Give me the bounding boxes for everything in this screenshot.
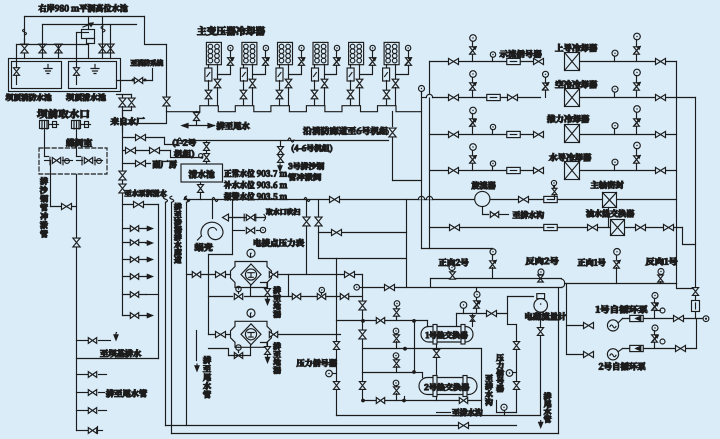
cyclone separator: [475, 191, 490, 206]
filter 1: [250, 254, 252, 258]
valve: clear pool internal: [76, 33, 78, 69]
valve: cyclone outlet: [519, 196, 529, 202]
cap: blowdown end: [264, 215, 266, 221]
gauge: x421 top: [419, 86, 425, 92]
basin box: [181, 164, 223, 182]
flowmeter: [537, 294, 545, 299]
pipe: seepage line A: [165, 203, 167, 426]
pipe: prv riser: [88, 17, 90, 30]
pipe: riser 2: [42, 25, 44, 45]
valve: filter2 left: [216, 331, 226, 337]
pipe: seepage line B: [171, 203, 173, 434]
junction: y400 x404: [402, 399, 406, 403]
valve: x306: [303, 217, 310, 226]
label: right-bank 980m headpond: [39, 4, 128, 12]
pump 1: [607, 320, 618, 331]
arrow: filter1 drain: [267, 298, 269, 303]
valve: bottom drain: [459, 422, 469, 428]
valve: x363 a: [359, 301, 366, 310]
pipe: y415.8 line: [337, 415, 541, 417]
pipe: pump2 discharge: [619, 349, 623, 352]
valve: city water tie 1: [122, 95, 124, 99]
row3 cooler 推力冷却器: [490, 124, 495, 129]
valve: filter1 left: [216, 271, 226, 277]
pipe: city water main: [122, 111, 124, 221]
pipe: riser 5 to tank2: [110, 25, 112, 45]
valve: filter1 left outer: [192, 272, 200, 278]
label: pressure signal 2 (vertical): [496, 354, 503, 361]
pipe: y400.5 line: [363, 400, 482, 402]
valve: flush: [62, 203, 72, 209]
pipe: cooler drain manifold: [167, 106, 422, 112]
pipe: basin drain vertical: [158, 205, 160, 359]
pipe: x336 column top: [336, 259, 338, 416]
pipe: aux plant branch: [123, 163, 151, 165]
valve: filter2 right: [269, 332, 277, 338]
valve: y150 b: [150, 147, 160, 153]
pipe: x407 drop: [406, 200, 408, 288]
valve: midline c: [340, 294, 348, 300]
label: to dam base drain: [100, 349, 141, 357]
junction: y400 x363: [361, 399, 365, 403]
pipe: x481 drop: [481, 349, 483, 416]
pipe: left column lower: [122, 221, 124, 316]
pipe: rack2 drop: [76, 129, 78, 157]
valve: pump1 suction: [584, 322, 594, 328]
ctrl: reverse no2: [538, 269, 544, 275]
pipe: main left drop: [76, 175, 78, 431]
pipe: yB line: [363, 287, 562, 289]
ctrl valve: filter2 mid: [236, 345, 241, 350]
pipe: yA riser: [430, 279, 432, 288]
valve: x695: [692, 288, 698, 296]
xbox: main shaft seal: [608, 193, 610, 200]
row4 left pipe/valves: [430, 170, 541, 172]
pipe: pump2 line: [567, 354, 583, 356]
spray branch 2: [123, 242, 147, 244]
pipe: x319 drop: [318, 200, 320, 259]
gauge: yB gauge: [354, 285, 360, 291]
pipe: y320.9 line: [337, 320, 428, 322]
label: 水导冷却器: [549, 153, 591, 161]
pipe: oil row: [430, 227, 683, 229]
valve: cyclone drain: [490, 212, 498, 218]
transformer cooler unit 6: [384, 42, 399, 64]
pipe: pump1 discharge: [619, 319, 623, 323]
spray branch 3: [123, 259, 147, 261]
label: to pump lube water: [125, 190, 167, 197]
pipe: y258.5 line: [319, 258, 407, 260]
pipe: valveroom outlet left: [50, 161, 52, 175]
pipe: filter bypass right: [288, 275, 290, 297]
transformer cooler unit 5: [349, 42, 364, 64]
ctrl: reverse no1: [658, 269, 664, 275]
label: butterfly valve room: [66, 139, 92, 147]
label: from water plant: [111, 117, 145, 125]
valve: city water tie 2: [131, 95, 133, 99]
label: drain to floor l2: [273, 343, 281, 350]
valve: filter1 line right: [345, 271, 355, 277]
water level mark tank1: [44, 65, 52, 74]
flow rect: service line: [544, 196, 558, 202]
row4 cooler 水导冷却器: [490, 161, 495, 166]
valve: gallery butterfly: [389, 128, 396, 137]
junction: x363/y320: [361, 319, 365, 323]
label: 上导冷却器: [555, 44, 597, 52]
valve: tank1 inlet 3: [55, 44, 62, 53]
hx2 capsule: [419, 378, 477, 395]
branch: tail3: [77, 410, 89, 412]
label: drain to tailwater: [217, 122, 250, 130]
valve: pump1 discharge: [674, 315, 684, 321]
valve: fire vert valve: [163, 97, 170, 106]
pipe: flowmeter U: [508, 296, 534, 298]
pipe: y313.8 line: [457, 313, 508, 315]
arrow line: drain to tailwater: [183, 125, 215, 127]
label: normal level: [224, 169, 287, 177]
branch: tail4 bottom: [77, 430, 89, 432]
valve: left drop valve: [73, 238, 80, 247]
pipe: riser 4 to tank2: [102, 17, 104, 45]
pressure reducing valve: [82, 30, 95, 39]
ctrl stack 1: [394, 301, 400, 307]
label: hx2: [425, 383, 470, 390]
pipe: riser 3: [58, 44, 60, 46]
pipe: y150 drop: [171, 151, 201, 158]
valve: hx1 top right: [470, 316, 475, 322]
pipe: unit 1-2 fire line: [177, 140, 389, 142]
pipe: line1 right drop: [145, 17, 167, 45]
valve: filter2 drain: [265, 347, 271, 355]
pipe: tank bottom taps: [117, 94, 132, 96]
pipe: hx2 drains: [436, 397, 438, 401]
branch: tail2: [77, 392, 89, 394]
label: intake blowdown: [266, 208, 300, 215]
pipe: y348.7 line: [363, 348, 482, 350]
pressure signal col2: [516, 325, 518, 342]
valve: basin butterfly: [204, 154, 210, 162]
valve: x363 lower: [362, 373, 364, 382]
arrow: drain to tailrace: [196, 331, 198, 361]
pipe: x306 drop: [306, 200, 308, 275]
valve: basin outlet: [198, 185, 204, 193]
valve: blowdown: [246, 215, 254, 221]
label: flow signal device: [500, 50, 542, 58]
pipe: filter1 line: [187, 274, 231, 276]
label: electromagnetic flowmeter: [525, 312, 566, 320]
pipe: internal tie: [17, 44, 89, 46]
pipe: lube branch: [123, 204, 159, 206]
valve: column v2: [119, 184, 126, 193]
pipe: rows return vertical x421: [421, 93, 423, 249]
label: main transformer coolers: [197, 26, 264, 35]
xbox: oil-water hx: [611, 220, 625, 236]
gate valve 1: [49, 157, 51, 165]
hx1 capsule: [421, 327, 473, 343]
tank: clear pool inner: [69, 62, 117, 89]
label: to fire system: [131, 60, 163, 67]
flow rect: oil row: [544, 224, 558, 230]
junction: y348 x405: [403, 347, 407, 351]
ctrl branch pump1: [652, 293, 658, 299]
valve: tank2 inlet 1: [99, 44, 106, 53]
pipe: main service line y199: [185, 199, 677, 201]
label: seepage gallery (vertical): [174, 203, 181, 210]
row1 cooler 上导冷却器: [490, 52, 495, 57]
pipe: hx2 feed: [422, 373, 424, 378]
pipe: epg line: [233, 230, 245, 232]
end dot: pump1 line: [703, 316, 709, 322]
pipe: blowdown stub: [223, 214, 229, 221]
pipe: branch y137 drop: [165, 138, 177, 145]
label: clear water basin: [189, 170, 215, 178]
label: to drain ditch: [513, 211, 544, 219]
label: alarm level: [224, 192, 287, 200]
label: to drain ditch (vertical): [485, 375, 492, 382]
valve: aux plant: [136, 160, 146, 166]
label: main shaft seal: [591, 181, 624, 189]
transformer cooler unit 1: [206, 42, 221, 64]
pipe: pump1 line: [567, 325, 583, 327]
ctrl: y400 up: [393, 380, 399, 386]
label: intake before dam: [37, 109, 89, 118]
ctrl: forward no2: [449, 265, 455, 271]
label: cyclone: [472, 181, 496, 189]
valve: tank1 inlet 2: [39, 44, 46, 53]
valve: x336 a: [333, 342, 339, 350]
branch: manifold drain to tailwater: [196, 112, 198, 113]
spray branch 6: [123, 315, 147, 317]
valve: x363 b: [359, 330, 366, 339]
pipe: branch y150 twin valves: [123, 150, 171, 152]
pipe: flush line: [51, 206, 77, 208]
valve: oil row b: [450, 224, 460, 230]
label: (1-2 units) l1: [173, 139, 196, 147]
pipe: oil row right corner: [683, 228, 696, 245]
spray branch 4: [123, 276, 147, 278]
label: (4-6 units): [292, 144, 332, 152]
pipe: left frame vertical: [186, 203, 188, 426]
label: drain to tailrace (vertical): [203, 356, 211, 364]
label: pump2: [599, 362, 646, 370]
branch: filter2 drain: [261, 343, 268, 347]
pipe: right main drop x676: [676, 62, 678, 284]
arrow: flowmeter drain: [540, 421, 542, 426]
pipe: right jog down: [677, 284, 696, 289]
tank: fire pool inner: [12, 62, 62, 89]
label: reverse no2: [526, 257, 559, 265]
pipe: x427 into hx1: [427, 321, 429, 327]
valve room dashed box: [39, 148, 107, 174]
pipe: headpond supply line 2: [43, 24, 137, 26]
flow rect: pump1: [630, 315, 644, 321]
label: (1-2 units) l2: [174, 150, 194, 158]
valve: pump2 suction: [584, 351, 594, 357]
row2 cooler 空冷冷却器: [487, 94, 501, 100]
valve: y400 a: [376, 398, 384, 404]
pipe: headpond supply line 1: [25, 16, 145, 18]
ctrl: down to yA: [492, 248, 494, 250]
valve: filter1 right: [269, 272, 277, 278]
label: pressure signal 1: [297, 359, 337, 367]
pipe: x456 into hx1: [456, 314, 458, 327]
valve: x336 b: [333, 382, 339, 390]
pipe: yA fwd line: [431, 278, 562, 280]
spiral case: [201, 222, 223, 239]
valve: y150 a: [126, 147, 136, 153]
pipe: branch y137: [123, 137, 165, 139]
pipe: filter midline: [209, 296, 233, 298]
pipe: right drop x695: [695, 98, 697, 289]
label: no3 sand flush l2: [288, 173, 321, 180]
pipe: rack1 drop: [44, 129, 46, 157]
pipe: yA/yB merge: [562, 279, 565, 288]
label: 空冷冷却器: [555, 80, 597, 88]
branch: tail1: [77, 374, 89, 376]
gate valve 2: [81, 157, 83, 165]
valve: rack1 outlet: [49, 124, 59, 126]
label: pump1: [596, 305, 647, 313]
tank: dam-top pools outer: [9, 59, 121, 92]
branch: no3 sand flush: [280, 141, 282, 147]
pipe: gallery to downcomer: [393, 180, 422, 182]
pipe: fire vert to city tie: [123, 112, 167, 124]
pipe: cyclone drain: [483, 207, 489, 215]
pipe: x363 drop: [362, 275, 364, 349]
label: sand-flush steel pipe (vertical): [40, 177, 48, 184]
label: hx1: [426, 331, 468, 338]
pipe: riser 1: [24, 17, 26, 45]
trash rack 2: [72, 121, 81, 129]
ctrl branch pump2: [652, 325, 658, 331]
valve: tank2 inlet 2: [107, 44, 114, 53]
valve: y400 b: [459, 398, 467, 404]
label: along fire gallery to unit6: [303, 127, 388, 135]
pipe: to fire system up: [152, 69, 154, 81]
label: oil-water heat exchanger: [586, 209, 634, 217]
valve: column v1: [119, 171, 126, 180]
pipe: epg stub: [232, 200, 234, 255]
pipe: filter supply header: [208, 255, 210, 335]
filter 2: [250, 314, 252, 318]
row1 left pipe/valves: [430, 61, 541, 63]
label: reverse no1: [646, 258, 678, 266]
valve: y232.5: [332, 229, 342, 235]
water level mark tank2: [91, 65, 99, 74]
label: drain to tailrace pipe: [106, 389, 147, 397]
valve: yB: [385, 284, 395, 290]
arrow: no3 sand flush: [279, 164, 281, 169]
valve: fire pool internal: [16, 45, 18, 69]
pipe: y372 stub: [363, 372, 415, 374]
valve: pump2 discharge: [676, 345, 686, 351]
row3 left pipe/valves: [430, 134, 541, 136]
valve: epg: [246, 228, 254, 234]
row2 left pipe/valves: [422, 97, 427, 99]
arrow: filter2 drain: [267, 356, 269, 361]
branch: to dam base drain: [77, 340, 89, 342]
transformer cooler unit 4: [313, 42, 328, 64]
valve: midline a: [292, 294, 300, 300]
valve: y320.9: [376, 318, 384, 324]
label: no3 sand flush l1: [288, 162, 324, 169]
valve: tailwater drain: [196, 112, 198, 113]
pipe: rows supply vertical x429: [429, 62, 431, 249]
pipe: y248 header: [422, 248, 493, 250]
ctrl stack 3: [393, 353, 399, 359]
pump 2: [607, 349, 618, 360]
branch: filter1 drain: [261, 283, 268, 289]
valve: hx1 drain: [436, 345, 438, 350]
pipe: basin inlet: [206, 141, 208, 143]
valve: flowmeter feed: [487, 310, 497, 316]
ctrl valve: filter mid: [236, 286, 241, 291]
label: drain to floor l1: [273, 287, 281, 294]
label: electric contact gauge: [254, 239, 304, 247]
branch: forward no1: [614, 249, 621, 256]
label: refill level: [224, 181, 287, 189]
pipe: tank2 outlet right: [117, 80, 153, 82]
spray branch 1: [123, 228, 147, 230]
ctrl: from yB: [474, 292, 480, 298]
pipe: y413 link: [497, 401, 517, 413]
valve: oil row d: [636, 224, 646, 230]
pipe: fire-system vertical: [166, 45, 168, 112]
transformer cooler unit 3: [278, 42, 293, 64]
valve: rack2 outlet: [81, 124, 91, 126]
valve: branch y137: [136, 134, 146, 140]
valve: oil row e: [664, 224, 674, 230]
valve: no3 sand flush: [278, 147, 284, 155]
label: auxiliary plant: [153, 160, 177, 168]
label: forward no1: [578, 259, 606, 267]
pipe: spiral feed: [212, 200, 214, 219]
gauge: y313 gauge: [460, 302, 467, 309]
ctrl stack 2: [393, 328, 399, 334]
transformer cooler unit 2: [242, 42, 257, 64]
pipe: clear pool feed top: [77, 32, 89, 34]
valve: service line: [330, 196, 340, 202]
valve: oil row c: [588, 224, 598, 230]
pipe: pump suction: [566, 284, 568, 355]
pipe: basin drain bottom: [77, 358, 159, 360]
flow rect: pump2: [630, 345, 644, 351]
label: 推力冷却器: [547, 115, 589, 123]
valve: filter1 drain: [265, 289, 271, 297]
valve: midline b: [319, 287, 324, 292]
spray branch 5: [123, 294, 147, 296]
label: forward no2: [439, 259, 469, 267]
pipe: basin outlet: [200, 183, 202, 185]
pipe: x414 drop: [414, 321, 416, 373]
junction: x414 y372: [412, 370, 416, 374]
valve: flowmeter drop: [537, 328, 543, 336]
label: clear pool: [66, 94, 106, 102]
pipe: filter2 line: [209, 334, 231, 336]
valve: fire system feed: [134, 78, 142, 84]
trash rack 1: [40, 121, 49, 129]
junction: y320 x414: [412, 319, 416, 323]
label: to drain ditch h: [452, 409, 482, 417]
pipe: y232.5 loop: [319, 232, 407, 234]
pipe: x697 down: [696, 319, 698, 349]
pipe: gallery riser: [392, 112, 394, 127]
gauge: seal line: [551, 180, 556, 185]
pipe: flowmeter drop: [540, 313, 542, 416]
pipe: x695 valve chain: [695, 289, 697, 319]
gauge: y415.8: [501, 404, 507, 410]
label: tailwater pipe (vertical): [544, 393, 552, 400]
